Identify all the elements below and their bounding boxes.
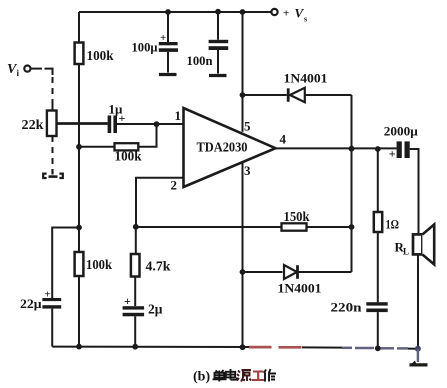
node diode top junction — [240, 92, 246, 98]
capacitor 2000u output — [397, 141, 410, 158]
ground 100u — [159, 73, 177, 76]
capacitor 220n zobel — [366, 302, 387, 312]
wire pin2 to feedback node — [136, 178, 184, 227]
label caption CJK 单 — [213, 370, 227, 382]
wire speaker to rail — [417, 255, 419, 348]
wire 1ohm branch — [377, 149, 379, 212]
capacitor 100n supply — [217, 12, 219, 40]
svg-text:5: 5 — [244, 119, 251, 134]
node 100n top rail — [215, 9, 221, 15]
svg-text:22μ: 22μ — [20, 296, 42, 311]
node rail speaker — [415, 346, 421, 352]
wire rail blue dashed overlay — [342, 347, 408, 350]
svg-text:2μ: 2μ — [148, 302, 163, 317]
ground dashed below pot — [43, 169, 63, 178]
wire left vertical middle — [78, 64, 80, 252]
wire output right vertical — [351, 95, 353, 272]
wire cap to pin1 — [117, 123, 184, 125]
svg-text:100n: 100n — [187, 53, 214, 68]
label 2000u — [384, 124, 419, 161]
svg-text:100μ: 100μ — [132, 40, 159, 55]
wire 220n to rail — [377, 312, 379, 348]
svg-text:3: 3 — [244, 163, 251, 178]
svg-text:150k: 150k — [284, 210, 310, 225]
svg-text:+: + — [160, 32, 166, 44]
label 2u — [124, 294, 163, 317]
svg-text:+: + — [45, 289, 51, 301]
op-amp U1 TDA2030 — [184, 108, 276, 187]
label 100u — [132, 32, 167, 55]
speaker RL — [413, 224, 434, 264]
wire diode D1 line — [243, 94, 287, 96]
svg-text:100k: 100k — [115, 150, 142, 165]
wire left vertical lower — [78, 276, 80, 347]
svg-text:4: 4 — [280, 132, 287, 147]
resistor 100k bottom bias — [75, 252, 84, 276]
resistor 100k top bias — [75, 43, 84, 65]
label RL — [395, 240, 410, 257]
svg-text:4.7k: 4.7k — [146, 260, 171, 275]
label caption CJK 工 (red) — [252, 372, 265, 381]
resistor 4.7k — [131, 254, 140, 277]
svg-text:220n: 220n — [331, 300, 363, 315]
label 22u — [20, 289, 51, 312]
node +Vs terminal circle — [271, 9, 277, 15]
wire pot wiper to coupling cap — [57, 122, 108, 125]
wire bottom diode line — [243, 271, 283, 273]
capacitor 2u — [123, 306, 145, 316]
wire divider node to 22u — [52, 228, 79, 299]
svg-text:2: 2 — [171, 178, 178, 193]
svg-text:+: + — [389, 147, 396, 161]
node output 1ohm branch — [375, 146, 381, 152]
svg-text:22k: 22k — [22, 118, 44, 133]
wire output line pin4 — [276, 147, 397, 149]
wire junction down to 100k feedback resistor — [138, 124, 156, 147]
svg-text:i: i — [17, 68, 20, 78]
svg-text:(b): (b) — [193, 370, 210, 385]
node feedback junction — [133, 224, 139, 230]
node junction pin1 feedback — [154, 121, 160, 127]
wire left vertical from top rail — [78, 12, 80, 43]
capacitor 1u input coupling — [108, 116, 117, 134]
wire 100u to ground — [167, 52, 169, 73]
svg-text:TDA2030: TDA2030 — [197, 141, 248, 156]
wire cap to speaker — [410, 149, 419, 235]
svg-text:100k: 100k — [87, 49, 114, 64]
label caption CJK 电 — [226, 369, 237, 380]
resistor 1ohm zobel — [374, 212, 382, 232]
svg-text:100k: 100k — [86, 258, 112, 273]
wire Vi to pot (part solid part dashed) — [31, 68, 42, 70]
node Vi input terminal — [24, 66, 30, 72]
wire 22u to rail — [51, 309, 53, 347]
capacitor 22u decouple — [42, 298, 61, 309]
svg-text:L: L — [403, 247, 409, 257]
label caption CJK 作 — [264, 369, 276, 382]
node rail pin3 — [240, 344, 246, 350]
node rail 100k — [76, 344, 82, 350]
node rail 2u — [132, 344, 138, 350]
svg-text:1N4001: 1N4001 — [278, 281, 322, 296]
label 1u — [109, 102, 126, 126]
svg-text:+: + — [124, 294, 131, 308]
wire 100n to ground — [217, 50, 219, 74]
node output diode junction — [349, 146, 355, 152]
node pin3 diode junction — [240, 269, 246, 275]
node rail 220n — [375, 345, 381, 351]
node divider decouple junction — [76, 225, 82, 231]
svg-text:2000μ: 2000μ — [384, 124, 419, 139]
wire bottom ground rail — [52, 347, 418, 349]
potentiometer 22k volume — [47, 111, 57, 137]
wire resistor to divider node — [79, 146, 115, 148]
node output 150k junction — [349, 224, 355, 230]
wire 150k feedback line — [136, 226, 352, 228]
svg-text:1Ω: 1Ω — [386, 217, 400, 232]
wire 1ohm to 220n — [377, 232, 379, 302]
resistor 150k feedback — [282, 223, 307, 230]
ground main right — [409, 349, 428, 366]
wire top supply rail — [79, 11, 271, 13]
label caption CJK 源 (red tinted) — [237, 370, 251, 382]
wire 4.7k to 2u — [134, 277, 136, 307]
capacitor 100u supply — [167, 12, 169, 42]
node 100u top rail — [165, 9, 171, 15]
wire pin5 vertical from top rail — [242, 12, 244, 132]
node divider junction — [76, 144, 82, 150]
svg-text:s: s — [304, 15, 307, 24]
svg-text:1N4001: 1N4001 — [284, 71, 328, 86]
svg-text:+: + — [119, 111, 126, 125]
diode D1 1N4001 top — [288, 88, 305, 102]
ground 100n — [209, 74, 227, 77]
svg-text:1: 1 — [175, 108, 182, 123]
svg-text:+: + — [283, 8, 289, 20]
label +Vs — [283, 6, 307, 24]
svg-text:V: V — [295, 6, 305, 21]
node top rail diode branch — [240, 9, 246, 15]
wire pot bottom dashed to ground — [52, 136, 54, 168]
wire pin2 node down — [135, 227, 137, 254]
label Vi — [7, 62, 20, 78]
wire pin3 vertical to rail — [242, 162, 244, 347]
resistor 100k to bias divider — [115, 143, 139, 150]
wire 2u to rail — [134, 316, 136, 346]
wire rail red dashed overlay — [249, 346, 302, 349]
diode D2 1N4001 bottom — [284, 265, 298, 279]
